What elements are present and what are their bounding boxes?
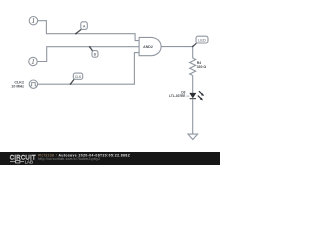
- resistor R4 zigzag: [190, 58, 196, 75]
- flag pointer LED: [192, 43, 196, 47]
- svg-text:330 Ω: 330 Ω: [197, 65, 207, 69]
- CircuitLab logo wire glyph: [10, 160, 24, 163]
- svg-text:LED: LED: [198, 38, 206, 42]
- svg-text:CLK: CLK: [75, 75, 82, 79]
- svg-text:1: 1: [32, 17, 36, 25]
- LED D3 triangle: [189, 93, 196, 98]
- svg-text:1: 1: [31, 58, 35, 66]
- flag box CLK: [73, 73, 82, 79]
- LED light arrow 1: [199, 91, 204, 96]
- wire gate output to resistor: [161, 47, 193, 59]
- LED light arrow 2: [198, 96, 203, 101]
- digital input source V1 (logic 1): [29, 17, 37, 25]
- svg-text:B: B: [94, 52, 97, 57]
- ground symbol: [188, 134, 198, 139]
- footer bar: [0, 152, 220, 165]
- flag pointer B: [89, 46, 93, 51]
- wire resistor to LED: [192, 76, 194, 94]
- wire input1 to node A run: [38, 21, 140, 41]
- flag box A: [81, 22, 88, 30]
- clock source CLK2 circle: [29, 80, 37, 88]
- svg-text:AND2: AND2: [143, 45, 153, 49]
- digital input source V2 (logic 1): [29, 57, 37, 65]
- svg-text:10 MHz: 10 MHz: [11, 85, 24, 89]
- svg-text:http://circuitlab.com/c/7kubm2: http://circuitlab.com/c/7kubm2qr6y2: [38, 157, 100, 161]
- svg-text:LTL-307EE: LTL-307EE: [169, 94, 185, 98]
- flag box LED: [196, 36, 208, 43]
- flag pointer A: [75, 29, 81, 34]
- wire LED to ground: [192, 99, 194, 134]
- flag box B: [92, 51, 98, 58]
- LED pin dash: [186, 95, 189, 97]
- wire input2 to node B run: [37, 47, 139, 62]
- svg-text:LAB: LAB: [25, 159, 33, 164]
- wire clock to gate input 3: [38, 53, 140, 85]
- clock source square-wave glyph: [30, 83, 36, 86]
- flag pointer CLK: [70, 79, 74, 85]
- AND gate AND2 body: [139, 37, 161, 55]
- svg-text:A: A: [83, 23, 86, 28]
- LED D3 cathode bar: [190, 98, 196, 100]
